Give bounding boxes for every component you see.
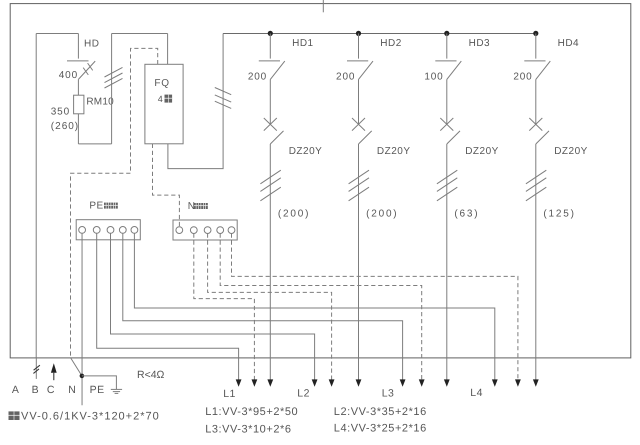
svg-text:A: A bbox=[12, 384, 20, 396]
cable marks on bus riser bbox=[215, 88, 231, 95]
svg-text:L3:VV-3*10+2*6: L3:VV-3*10+2*6 bbox=[205, 423, 291, 435]
breaker DZ20Y HD2 column bbox=[352, 79, 372, 144]
wire: HD2 feeder down with cable marks bbox=[349, 144, 369, 380]
wire: HD3 feeder down with cable marks bbox=[437, 144, 457, 380]
svg-text:200: 200 bbox=[513, 72, 532, 83]
svg-text:200: 200 bbox=[336, 72, 355, 83]
terminal block PE bbox=[76, 220, 140, 240]
svg-text:HD2: HD2 bbox=[380, 38, 402, 49]
bus bar bbox=[223, 33, 536, 35]
svg-text:C: C bbox=[47, 384, 55, 396]
svg-text:200: 200 bbox=[248, 72, 267, 83]
wire: N conductor dashed to L1 bbox=[194, 234, 255, 381]
direction arrow at C bbox=[51, 363, 57, 380]
svg-text:VV-0.6/1KV-3*120+2*70: VV-0.6/1KV-3*120+2*70 bbox=[21, 411, 160, 423]
wire: N conductor dashed to L3 bbox=[220, 234, 422, 381]
wire: PE1 to earth point bbox=[81, 233, 83, 405]
svg-text:L1: L1 bbox=[223, 388, 236, 400]
breaker FQ 4-pole bbox=[145, 64, 183, 144]
incoming phase marker at B bbox=[33, 358, 40, 379]
wire: neutral dashed from FQ top to PEN point bbox=[71, 48, 158, 358]
wire: PE conductor to L4 bbox=[134, 233, 494, 380]
node on bus for HD1 bbox=[268, 31, 273, 36]
wire: N conductor dashed to L2 bbox=[208, 234, 332, 381]
svg-text:HD4: HD4 bbox=[558, 38, 580, 49]
svg-text:(200): (200) bbox=[366, 209, 398, 220]
svg-text:R<4Ω: R<4Ω bbox=[137, 369, 165, 381]
svg-text:L4: L4 bbox=[470, 387, 483, 399]
label incoming cable spec bbox=[9, 411, 160, 423]
wire: drop into FQ top bbox=[167, 34, 169, 65]
arrow: phase outgoing bbox=[356, 379, 362, 386]
fuse-switch HD4 bbox=[524, 34, 550, 80]
wire: rail to FQ bbox=[112, 33, 168, 35]
svg-text:(125): (125) bbox=[543, 209, 575, 220]
wire: to earth electrode bbox=[82, 376, 117, 389]
svg-text:DZ20Y: DZ20Y bbox=[465, 146, 499, 157]
label N terminal block bbox=[188, 201, 208, 212]
svg-text:PE: PE bbox=[90, 384, 105, 396]
wire: riser with 3-phase marks bbox=[105, 34, 123, 144]
svg-text:RM10: RM10 bbox=[86, 96, 114, 107]
fuse-switch HD3 bbox=[435, 34, 461, 80]
svg-text:PE: PE bbox=[89, 200, 103, 211]
wire: left phase riser from incoming cable bbox=[35, 34, 37, 358]
svg-text:L3: L3 bbox=[382, 388, 395, 400]
svg-text:B: B bbox=[32, 384, 40, 396]
svg-text:DZ20Y: DZ20Y bbox=[554, 146, 588, 157]
breaker DZ20Y HD4 column bbox=[529, 79, 549, 144]
svg-text:(63): (63) bbox=[454, 209, 479, 220]
svg-text:HD3: HD3 bbox=[469, 38, 491, 49]
wire: PE conductor to L3 bbox=[123, 233, 403, 380]
ground symbol bbox=[111, 389, 122, 393]
wire: fuse output to riser bbox=[78, 143, 111, 145]
fuse-switch HD2 bbox=[347, 34, 373, 80]
breaker DZ20Y HD3 column bbox=[440, 79, 460, 144]
svg-text:L4:VV-3*25+2*16: L4:VV-3*25+2*16 bbox=[334, 422, 427, 434]
svg-text:350: 350 bbox=[51, 107, 70, 118]
wire: PEN link diagonal bbox=[71, 358, 82, 376]
fuse-switch HD bbox=[67, 34, 95, 80]
fuse-switch HD1 bbox=[259, 34, 285, 80]
svg-text:4: 4 bbox=[158, 94, 164, 104]
wire: HD4 feeder down with cable marks bbox=[526, 144, 546, 380]
svg-text:HD: HD bbox=[84, 39, 99, 50]
conductor count ticks on HD blade bbox=[83, 63, 93, 75]
svg-text:N: N bbox=[68, 384, 76, 396]
svg-text:L2: L2 bbox=[297, 388, 310, 400]
svg-text:400: 400 bbox=[59, 70, 78, 81]
svg-text:L1:VV-3*95+2*50: L1:VV-3*95+2*50 bbox=[205, 406, 298, 418]
node: PEN/earth junction bbox=[80, 374, 85, 379]
node on bus for HD2 bbox=[356, 31, 361, 36]
wire: N conductor dashed to L4 bbox=[232, 234, 518, 381]
arrow: phase outgoing bbox=[444, 379, 450, 386]
arrow: phase outgoing bbox=[533, 379, 539, 386]
svg-text:100: 100 bbox=[424, 72, 443, 83]
wire: HD1 feeder down with cable marks bbox=[260, 144, 280, 380]
wire: FQ output bbox=[168, 34, 223, 169]
wire: incoming feeder stub crossing top border bbox=[322, 0, 324, 12]
breaker DZ20Y HD1 column bbox=[264, 79, 284, 144]
svg-text:FQ: FQ bbox=[154, 78, 170, 89]
wire: PE conductor to L2 bbox=[111, 233, 315, 380]
svg-text:DZ20Y: DZ20Y bbox=[377, 146, 411, 157]
wire: neutral dashed FQ to N terminal block bbox=[153, 144, 180, 227]
svg-text:(260): (260) bbox=[51, 121, 79, 132]
svg-text:HD1: HD1 bbox=[292, 38, 314, 49]
node on bus for HD3 bbox=[444, 31, 449, 36]
wire: PE conductor to L1 bbox=[97, 233, 239, 380]
fuse RM10 bbox=[74, 79, 84, 143]
wire: top rail segment to HD switch bbox=[36, 33, 78, 35]
svg-text:L2:VV-3*35+2*16: L2:VV-3*35+2*16 bbox=[334, 406, 427, 418]
terminal block N bbox=[173, 220, 237, 240]
svg-text:DZ20Y: DZ20Y bbox=[289, 146, 323, 157]
node on bus for HD4 bbox=[533, 31, 538, 36]
label PE terminal block bbox=[89, 200, 117, 211]
svg-text:(200): (200) bbox=[278, 209, 310, 220]
arrow: phase outgoing bbox=[267, 379, 273, 386]
